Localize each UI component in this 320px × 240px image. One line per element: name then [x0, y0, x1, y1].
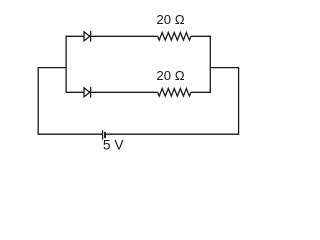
svg-text:5 V: 5 V — [103, 138, 125, 153]
svg-text:20 Ω: 20 Ω — [156, 12, 184, 27]
svg-text:20 Ω: 20 Ω — [156, 68, 184, 83]
